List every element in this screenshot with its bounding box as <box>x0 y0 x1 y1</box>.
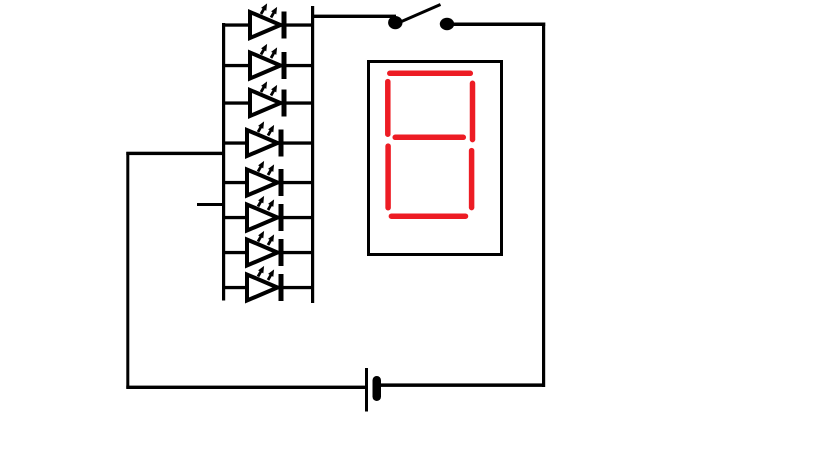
segment g (middle) <box>395 135 463 141</box>
wire row 1 <box>222 23 314 26</box>
segment b (top-right) <box>470 83 476 139</box>
LED D2 <box>250 42 287 79</box>
LED D3 <box>250 80 287 117</box>
seven-segment display body <box>369 62 502 255</box>
LED D5 <box>247 159 284 196</box>
segment d (bottom) <box>391 213 465 219</box>
battery long plate <box>365 368 368 412</box>
wire row 3 <box>222 101 314 104</box>
right LED rail <box>311 6 314 303</box>
segment c (bottom-right) <box>469 151 475 208</box>
LED D7 <box>247 229 284 266</box>
left LED rail <box>222 23 225 301</box>
wire from left loop to rail <box>126 152 225 155</box>
wire row 7 <box>222 251 314 254</box>
wire switch to right corner <box>452 23 545 27</box>
wire row 6 <box>222 216 314 219</box>
segment f (top-left) <box>385 82 391 135</box>
LED D6 <box>247 194 284 231</box>
segment e (bottom-left) <box>385 146 391 208</box>
wire row 5 <box>222 181 314 184</box>
wire row 2 <box>222 64 314 67</box>
LED D8 <box>247 264 284 301</box>
switch lever <box>402 5 441 22</box>
dangling stub wire <box>197 203 223 206</box>
right vertical wire <box>542 23 545 388</box>
switch pole contact dot <box>388 16 402 29</box>
wire row 8 <box>222 286 314 289</box>
LED D1 <box>250 2 287 39</box>
left loop vertical wire <box>126 152 129 389</box>
bottom wire to battery <box>126 386 365 389</box>
segment a (top) <box>390 71 471 77</box>
battery short thick plate <box>373 376 382 401</box>
wire row 4 <box>222 141 314 144</box>
switch throw contact dot <box>440 18 454 30</box>
LED D4 <box>247 120 284 157</box>
wire battery to right corner <box>381 383 544 387</box>
wire rail to switch <box>314 15 396 18</box>
